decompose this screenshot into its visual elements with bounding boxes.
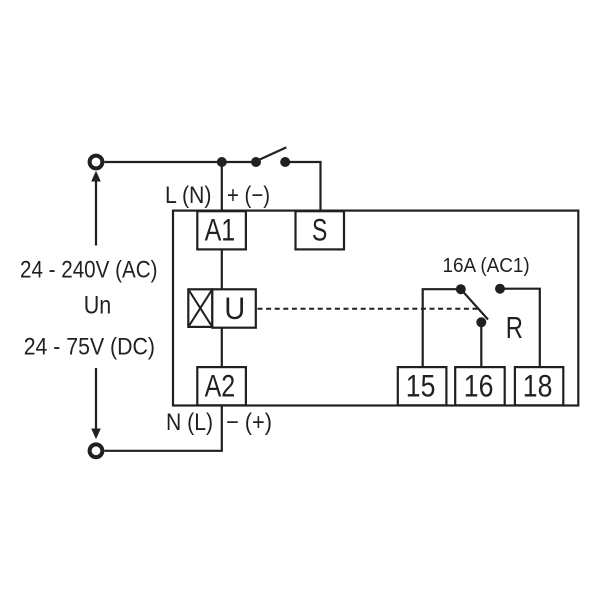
terminal box 18 — [515, 367, 563, 405]
input element X-box — [188, 289, 212, 327]
svg-text:24 - 75V (DC): 24 - 75V (DC) — [24, 333, 155, 360]
terminal box 15 — [398, 367, 447, 405]
wire A2 to bottom terminal — [105, 405, 222, 451]
terminal box 16 — [455, 367, 505, 405]
svg-text:A1: A1 — [205, 212, 236, 248]
supply arrow down — [95, 368, 97, 430]
relay contact common node (15) — [456, 284, 466, 294]
switch S1 blade — [257, 147, 287, 161]
wire contact to 16 — [480, 322, 482, 367]
supply arrow up — [91, 171, 101, 182]
terminal box A1 — [197, 211, 246, 249]
device outline — [173, 211, 578, 406]
terminal X1 (top-left supply) — [90, 156, 103, 169]
svg-text:15: 15 — [406, 368, 436, 404]
svg-text:24 - 240V (AC): 24 - 240V (AC) — [20, 256, 158, 283]
terminal box S — [296, 211, 345, 249]
terminal X2 (bottom-left supply) — [90, 444, 103, 457]
wire switch to S box — [285, 162, 320, 211]
svg-text:− (+): − (+) — [226, 409, 272, 436]
svg-text:S: S — [312, 212, 327, 248]
relay NO node (18) — [495, 284, 505, 294]
relay moving node (16) — [476, 317, 486, 327]
svg-text:Un: Un — [84, 292, 112, 320]
svg-text:N (L): N (L) — [166, 409, 213, 436]
wire A1 to U — [221, 249, 223, 289]
svg-text:R: R — [506, 311, 523, 345]
node junction top — [217, 157, 227, 167]
svg-text:A2: A2 — [205, 368, 236, 404]
wire contact to 18 — [500, 289, 540, 367]
svg-text:16A (AC1): 16A (AC1) — [443, 254, 530, 277]
dashed actuation link U to relay blade — [258, 308, 481, 310]
svg-text:U: U — [224, 290, 245, 326]
relay blade — [461, 289, 488, 319]
svg-text:16: 16 — [464, 368, 494, 404]
wire U to A2 — [221, 328, 223, 367]
switch S1 contacts — [251, 157, 261, 167]
svg-text:L (N): L (N) — [165, 182, 212, 209]
wire junction to A1 — [221, 162, 223, 212]
svg-text:+ (−): + (−) — [227, 182, 270, 209]
wire contact to 15 — [423, 289, 461, 367]
relay coil box U — [212, 289, 256, 327]
svg-text:18: 18 — [523, 368, 553, 404]
wire supply top horizontal — [105, 161, 257, 163]
terminal box A2 — [197, 367, 246, 405]
